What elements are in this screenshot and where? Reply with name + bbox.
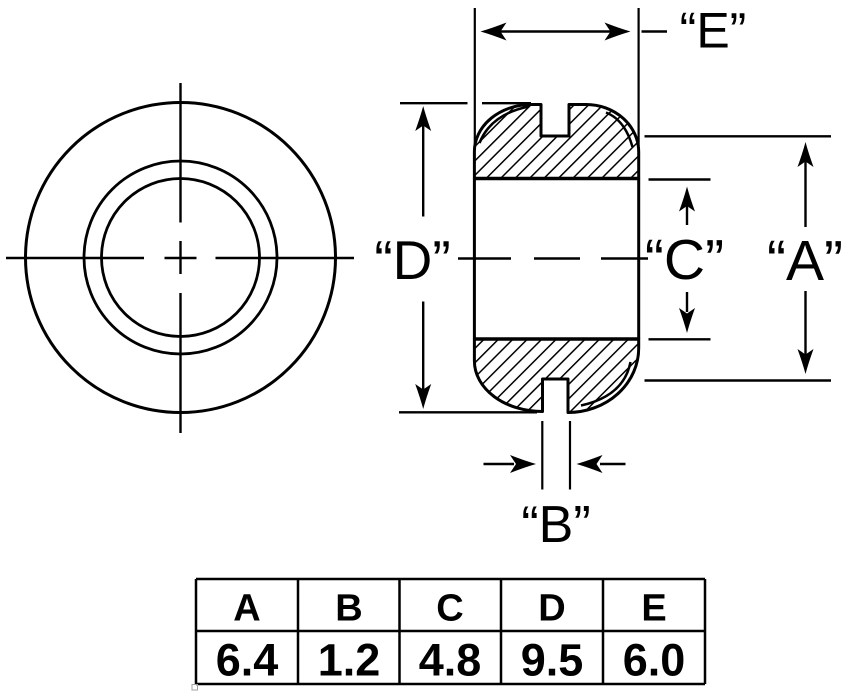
table grid (196, 579, 705, 684)
body right wire (637, 179, 640, 340)
svg-text:1.2: 1.2 (318, 635, 381, 686)
tangent edge arc top-left (480, 107, 530, 144)
horizontal centerline (6, 257, 354, 259)
wire: top flange inner face (474, 177, 638, 181)
svg-text:9.5: 9.5 (521, 635, 584, 686)
body left wire (473, 179, 476, 340)
D dimension line lower (422, 302, 424, 391)
B extension line left (541, 421, 543, 490)
svg-text:E: E (641, 588, 666, 630)
svg-text:“E”: “E” (680, 3, 747, 59)
E leader tail (642, 30, 668, 32)
E arrowhead left (481, 23, 507, 41)
svg-text:6.0: 6.0 (623, 635, 686, 686)
B dimension line right (600, 463, 626, 465)
A extension line bottom (645, 379, 832, 381)
E extension line right (637, 8, 639, 146)
table header row A B C D E (233, 588, 666, 630)
svg-text:“C”: “C” (645, 228, 724, 292)
A arrowhead down (798, 349, 814, 374)
svg-text:A: A (233, 588, 260, 630)
B extension line right (569, 421, 571, 490)
svg-text:B: B (335, 588, 362, 630)
B arrowhead left-pointing (577, 455, 603, 473)
E extension line left (474, 8, 476, 145)
artifact square bottom-left of table (192, 685, 198, 691)
tangent edge arc bottom-right (581, 362, 631, 406)
tangent edge arc top-right (606, 113, 633, 148)
E arrowhead right (605, 23, 631, 41)
B arrowhead right-pointing (510, 455, 536, 473)
D extension line bottom (399, 411, 537, 413)
svg-text:“D”: “D” (374, 229, 450, 291)
E dimension line (499, 30, 612, 32)
A dimension line lower (804, 291, 806, 355)
svg-text:D: D (538, 588, 565, 630)
A dimension line upper (804, 160, 806, 227)
C arrowhead up (679, 187, 695, 212)
table value row 6.4 1.2 4.8 9.5 6.0 (216, 635, 686, 686)
outer circle (26, 103, 336, 413)
C dimension line lower (686, 292, 688, 312)
top flange (hatched) (474, 104, 638, 178)
A arrowhead up (798, 142, 814, 167)
svg-text:6.4: 6.4 (216, 635, 279, 686)
inner circle (102, 179, 260, 337)
svg-text:4.8: 4.8 (419, 635, 482, 686)
vertical centerline (179, 83, 181, 433)
C extension line bottom (649, 338, 711, 340)
C arrowhead down (679, 308, 695, 333)
wire: bottom flange inner face (474, 337, 638, 341)
svg-text:“B”: “B” (521, 496, 590, 554)
svg-text:C: C (436, 588, 463, 630)
D extension line top (400, 102, 468, 104)
B dimension line left (484, 463, 515, 465)
bottom flange (hatched) (474, 339, 638, 413)
C dimension line upper (686, 203, 688, 225)
D arrowhead down (415, 384, 431, 409)
A extension line top (645, 135, 832, 137)
C extension line top (649, 178, 711, 180)
middle circle (84, 161, 277, 354)
section centerline (458, 257, 648, 259)
svg-text:“A”: “A” (767, 229, 843, 293)
D arrowhead up (415, 106, 431, 131)
D dimension line upper (422, 124, 424, 217)
